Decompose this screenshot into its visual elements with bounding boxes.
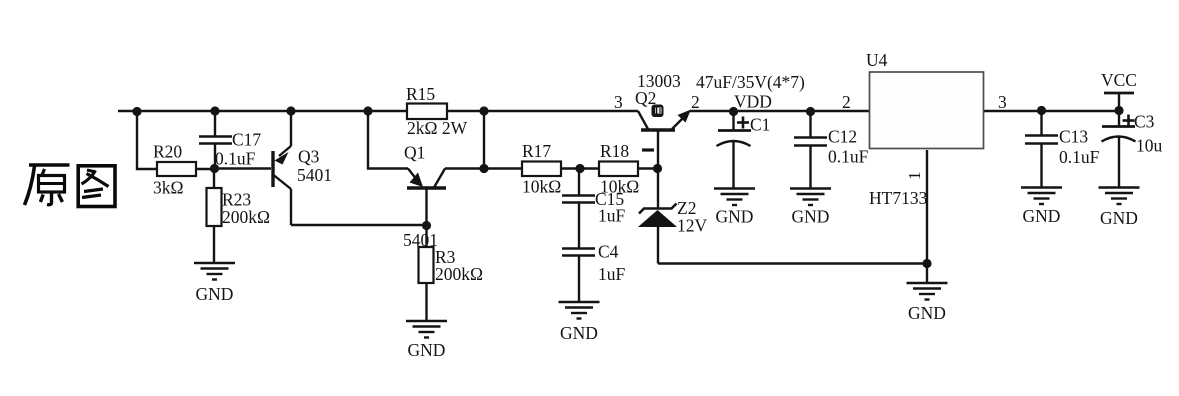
ground below R23 xyxy=(194,263,235,304)
resistor R18 xyxy=(599,141,658,197)
svg-text:200kΩ: 200kΩ xyxy=(222,207,270,227)
capacitor C4 xyxy=(562,242,626,303)
svg-text:GND: GND xyxy=(1100,208,1138,228)
caption 原图 character 原 xyxy=(25,165,70,205)
svg-text:0.1uF: 0.1uF xyxy=(828,147,869,167)
node rail junction C17 branch xyxy=(210,106,219,115)
svg-text:1: 1 xyxy=(905,172,924,181)
transistor Q3 xyxy=(273,111,332,225)
transistor Q1 xyxy=(403,143,446,251)
node VCC junction xyxy=(1114,106,1123,115)
wire bottom rail xyxy=(658,262,927,264)
capacitor C12 xyxy=(794,112,869,189)
node junction R18 / Q2 / Z2 xyxy=(653,164,662,173)
svg-text:C17: C17 xyxy=(232,130,261,150)
svg-text:GND: GND xyxy=(196,284,234,304)
svg-text:Q3: Q3 xyxy=(298,147,320,167)
node VDD xyxy=(729,92,772,117)
capacitor C13 xyxy=(1025,111,1100,187)
svg-text:12V: 12V xyxy=(677,216,708,236)
resistor R17 xyxy=(522,141,599,197)
svg-text:3: 3 xyxy=(614,92,623,112)
svg-text:1uF: 1uF xyxy=(598,206,626,226)
svg-text:C4: C4 xyxy=(598,242,619,262)
svg-text:10kΩ: 10kΩ xyxy=(522,177,561,197)
svg-text:2: 2 xyxy=(842,92,851,112)
capacitor C1 polarized xyxy=(717,112,771,188)
pin 1 of U4 xyxy=(905,150,927,264)
svg-text:C12: C12 xyxy=(828,127,857,147)
svg-text:2kΩ 2W: 2kΩ 2W xyxy=(407,118,468,138)
node rail junction Q1 emitter branch xyxy=(363,106,372,115)
svg-text:R17: R17 xyxy=(522,141,551,161)
svg-text:HT7133: HT7133 xyxy=(869,188,928,208)
wire Q1 emitter branch xyxy=(368,111,408,169)
node junction bottom rail / U4 pin1 xyxy=(922,259,931,268)
resistor R20 xyxy=(153,142,214,198)
zener diode Z2 xyxy=(638,169,708,264)
svg-text:GND: GND xyxy=(1023,206,1061,226)
svg-text:U4: U4 xyxy=(866,50,888,70)
svg-text:1uF: 1uF xyxy=(598,264,626,284)
svg-text:47uF/35V(4*7): 47uF/35V(4*7) xyxy=(696,72,805,92)
svg-text:5401: 5401 xyxy=(297,165,332,185)
svg-text:2: 2 xyxy=(691,92,700,112)
resistor R3 xyxy=(419,226,484,321)
node rail junction Q1 collector riser xyxy=(479,106,488,115)
wire Q1 collector riser xyxy=(445,111,522,169)
node junction Q3 collector / Q1 base / R3 xyxy=(422,221,431,230)
resistor R23 xyxy=(207,168,271,263)
ground below U4 xyxy=(907,264,948,323)
svg-text:C13: C13 xyxy=(1059,127,1088,147)
wire main rail Q2 to U4 xyxy=(690,110,870,112)
capacitor C3 polarized xyxy=(1102,111,1163,187)
svg-text:0.1uF: 0.1uF xyxy=(1059,147,1100,167)
svg-text:VCC: VCC xyxy=(1101,70,1137,90)
svg-text:C1: C1 xyxy=(750,115,770,135)
IC U4 HT7133 xyxy=(842,50,1007,208)
wire R20 branch vertical xyxy=(137,111,157,169)
capacitor C17 xyxy=(199,111,261,169)
ground below R3 xyxy=(406,321,447,360)
svg-text:200kΩ: 200kΩ xyxy=(435,264,483,284)
node rail junction Q3 emitter xyxy=(286,106,295,115)
caption 原图 character 图 xyxy=(78,166,115,207)
node C12 xyxy=(806,107,815,116)
minus mark at Q2 base xyxy=(642,148,654,151)
node junction R17/R18/C15 xyxy=(575,164,584,173)
svg-text:R20: R20 xyxy=(153,142,182,162)
wire Q3 base xyxy=(214,167,271,169)
svg-text:GND: GND xyxy=(408,340,446,360)
svg-text:10u: 10u xyxy=(1136,136,1163,156)
svg-text:C3: C3 xyxy=(1134,112,1155,132)
svg-text:R15: R15 xyxy=(406,84,435,104)
resistor R15 xyxy=(406,84,468,138)
pin mark glyph on Q2 xyxy=(652,105,664,118)
ground below C3 xyxy=(1099,188,1140,229)
power VCC xyxy=(1101,70,1137,111)
ground below C12 xyxy=(790,189,831,227)
svg-text:3kΩ: 3kΩ xyxy=(153,178,184,198)
transistor Q2 xyxy=(614,71,700,169)
ground below C1 xyxy=(714,189,755,227)
svg-text:13003: 13003 xyxy=(637,71,681,91)
svg-text:GND: GND xyxy=(716,207,754,227)
svg-text:GND: GND xyxy=(908,303,946,323)
node junction R20/C17/R23/Q3-base xyxy=(210,164,219,173)
svg-text:VDD: VDD xyxy=(734,92,772,112)
wire U4 output rail xyxy=(984,110,1123,112)
node rail junction R20 branch xyxy=(132,107,141,116)
svg-text:3: 3 xyxy=(998,92,1007,112)
node Q1 collector junction xyxy=(479,164,488,173)
svg-text:Q1: Q1 xyxy=(404,143,425,163)
svg-text:GND: GND xyxy=(560,323,598,343)
wire Q3 collector to Q1 base xyxy=(291,224,426,226)
svg-text:GND: GND xyxy=(792,207,830,227)
ground below C13 xyxy=(1021,188,1062,227)
svg-text:0.1uF: 0.1uF xyxy=(215,149,256,169)
capacitor C15 xyxy=(562,169,626,249)
ground below C4 xyxy=(559,302,600,343)
node C13 xyxy=(1037,106,1046,115)
wire main top rail left segment xyxy=(118,110,638,112)
svg-text:R18: R18 xyxy=(600,141,629,161)
